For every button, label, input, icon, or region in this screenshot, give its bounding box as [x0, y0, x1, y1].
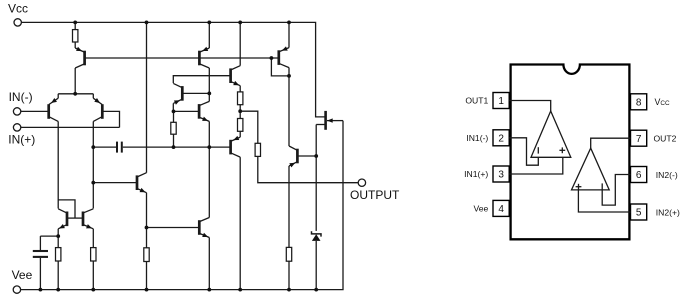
svg-text:2: 2 [498, 133, 504, 144]
svg-text:5: 5 [636, 208, 642, 219]
svg-text:IN(+): IN(+) [8, 133, 35, 147]
svg-text:1: 1 [498, 96, 504, 107]
svg-text:IN2(+): IN2(+) [656, 207, 680, 217]
svg-text:IN1(-): IN1(-) [466, 133, 488, 143]
svg-text:Vee: Vee [473, 204, 488, 214]
svg-text:IN1(+): IN1(+) [464, 169, 488, 179]
svg-text:OUT2: OUT2 [654, 133, 677, 143]
svg-text:6: 6 [636, 170, 642, 181]
svg-text:IN(-): IN(-) [9, 90, 33, 104]
svg-text:IN2(-): IN2(-) [656, 170, 678, 180]
svg-text:7: 7 [636, 134, 642, 145]
svg-text:4: 4 [498, 204, 504, 215]
svg-text:Vcc: Vcc [8, 1, 28, 15]
svg-text:OUT1: OUT1 [465, 96, 488, 106]
svg-text:OUTPUT: OUTPUT [350, 188, 400, 202]
svg-text:8: 8 [636, 97, 642, 108]
svg-text:3: 3 [498, 170, 504, 181]
svg-text:Vee: Vee [12, 268, 33, 282]
